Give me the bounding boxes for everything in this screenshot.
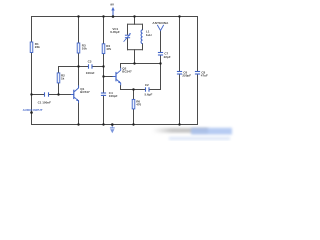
- wire emitter node horizontal to C2: [121, 89, 146, 91]
- wire C2 to antenna branch: [149, 89, 161, 91]
- wire top +9V rail: [32, 16, 198, 18]
- wire Q2 base from R4 branch: [104, 76, 113, 78]
- svg-text:220pF: 220pF: [182, 74, 191, 78]
- junction dot emitter node R6: [132, 88, 134, 90]
- svg-text:6.45pF: 6.45pF: [110, 30, 120, 34]
- watermark blue blob: [191, 128, 232, 135]
- capacitor C1: [38, 92, 52, 104]
- svg-text:47k: 47k: [106, 47, 111, 51]
- resistor R4: [102, 44, 111, 54]
- watermark grey strip: [152, 128, 208, 133]
- svg-text:100nF: 100nF: [86, 71, 95, 75]
- resistor R6: [132, 99, 141, 109]
- svg-text:AUDIO INPUT: AUDIO INPUT: [23, 108, 43, 112]
- wire antenna coupling vertical C7 to C2 node: [160, 55, 162, 90]
- wire R3 / Q1 collector branch: [78, 17, 80, 88]
- svg-text:100pF: 100pF: [109, 94, 118, 98]
- wire Q1 emitter to ground rail: [78, 101, 80, 125]
- wire tank rectangle top: [128, 23, 143, 25]
- svg-text:1uH: 1uH: [146, 33, 152, 37]
- wire C8 branch lower: [197, 74, 199, 125]
- svg-text:5.6pF: 5.6pF: [145, 92, 153, 96]
- wire left branch with R1: [31, 17, 33, 125]
- variable capacitor VC1: [110, 27, 131, 42]
- wire tank right side lower: [142, 44, 144, 50]
- svg-text:9V: 9V: [110, 2, 114, 6]
- capacitor C7: [158, 51, 171, 59]
- wire Q2 collector riser: [120, 64, 122, 68]
- capacitor C6: [177, 70, 191, 77]
- ground: [110, 125, 115, 134]
- wire tank right side upper: [142, 24, 144, 30]
- wire tank top stem: [134, 17, 136, 25]
- wire bias node horizontal (R2 R3 C3 R4): [59, 66, 89, 68]
- svg-text:C3: C3: [88, 60, 92, 64]
- junction dots bias node: [77, 65, 104, 77]
- junction dots top rail: [77, 15, 180, 18]
- wire C6 branch upper: [179, 17, 181, 72]
- svg-text:22k: 22k: [35, 45, 40, 49]
- capacitor C3: [86, 60, 95, 75]
- wire R2 vertical branch: [58, 67, 60, 95]
- svg-text:ANTENNA: ANTENNA: [152, 21, 169, 25]
- wire C8 branch upper: [197, 17, 199, 72]
- svg-text:47uF: 47uF: [201, 74, 208, 78]
- wire antenna stem: [160, 31, 162, 53]
- svg-text:BC547: BC547: [122, 70, 132, 74]
- wire R4 / C4 branch upper: [103, 17, 105, 94]
- wire Q2 emitter riser: [120, 85, 122, 89]
- wire tank rectangle bottom: [128, 49, 143, 51]
- transistor Q2: [113, 67, 132, 86]
- capacitor C8: [195, 70, 208, 77]
- transistor Q1: [71, 85, 90, 103]
- resistor R1: [30, 42, 40, 53]
- wire tank left side upper: [127, 24, 129, 34]
- wire R6 branch: [133, 90, 135, 125]
- capacitor C4: [101, 91, 118, 98]
- node audio input terminal: [23, 108, 43, 114]
- svg-text:C1 100nF: C1 100nF: [38, 101, 52, 105]
- resistor R3: [77, 43, 87, 53]
- resistor R2: [57, 73, 65, 83]
- junction dot R2 to base: [57, 93, 59, 95]
- svg-text:1k: 1k: [61, 76, 65, 80]
- junction dots bottom rail: [77, 123, 180, 126]
- watermark blue smear lower: [169, 137, 230, 140]
- wire collector node horizontal: [121, 63, 161, 65]
- svg-text:10k: 10k: [82, 46, 87, 50]
- wire C4 to ground rail: [103, 95, 105, 124]
- power supply 9V arrow: [110, 2, 114, 16]
- svg-text:C2: C2: [145, 83, 149, 87]
- junction dot audio node: [30, 93, 32, 95]
- wire tank bottom stem: [134, 50, 136, 64]
- capacitor C2: [145, 83, 153, 96]
- svg-text:470: 470: [136, 103, 141, 107]
- svg-text:BC547: BC547: [80, 90, 90, 94]
- wire C3 right to R4 branch: [92, 66, 104, 68]
- inductor L1: [141, 30, 152, 44]
- wire bottom ground rail: [32, 124, 198, 126]
- junction dots collector node: [133, 62, 161, 64]
- wire Q1 base from audio node: [32, 94, 45, 96]
- antenna: [152, 21, 169, 30]
- wire C6 branch lower: [179, 74, 181, 125]
- svg-text:22pF: 22pF: [164, 55, 171, 59]
- wire C1 to Q1 base: [49, 94, 74, 96]
- wire tank left side lower: [127, 38, 129, 49]
